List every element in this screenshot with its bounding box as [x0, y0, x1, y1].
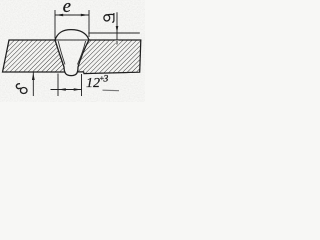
dim 12: right arrowhead — [74, 88, 82, 91]
dim delta: leader line — [32, 73, 34, 97]
scan grain overlay — [0, 0, 145, 102]
label g bowl — [104, 15, 110, 21]
dim e: right arrowhead — [81, 14, 89, 17]
dim 12: dimension line — [51, 89, 82, 91]
label delta loop — [20, 88, 27, 94]
dim e: left extension line — [54, 10, 56, 39]
dim e: left arrowhead — [55, 14, 63, 17]
dim g: leader line — [116, 40, 119, 45]
left bevel line — [58, 41, 65, 65]
dim g: arrowhead — [116, 26, 119, 33]
left plate — [3, 40, 72, 72]
dim 12: left extension line — [57, 74, 59, 97]
dim e: dimension line — [55, 14, 89, 16]
weld bead — [55, 30, 89, 76]
dim e: right extension line — [88, 10, 90, 37]
dim 12: left arrowhead — [58, 88, 66, 91]
label delta curl — [16, 84, 20, 89]
dim 12: right extension line — [81, 74, 83, 96]
right plate — [71, 40, 141, 74]
right bevel line — [77, 41, 85, 65]
dim delta: arrowhead — [32, 73, 35, 81]
label g stem — [112, 13, 114, 22]
label g bar — [106, 13, 115, 16]
stray dash mark — [103, 89, 120, 92]
surface line under cap — [56, 39, 89, 41]
dim g: cap-level extension line — [88, 32, 140, 34]
